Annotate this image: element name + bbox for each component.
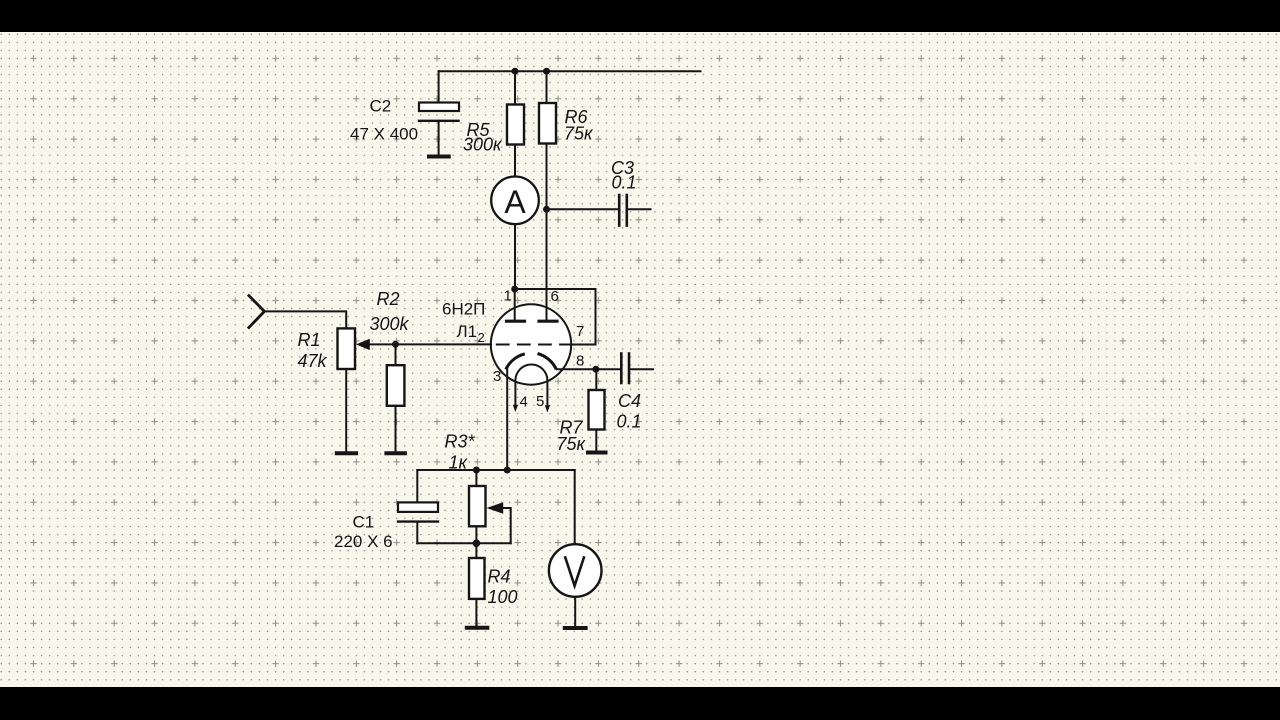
svg-text:6: 6 [551,288,559,305]
svg-text:5: 5 [536,393,544,410]
svg-text:220 X 6: 220 X 6 [334,532,393,551]
node: rail-R6 junction [543,68,550,75]
ground (R7) [588,451,606,455]
svg-text:C1: C1 [353,513,375,532]
wire: R6 to tube pin 6 anode lead [546,144,548,320]
ground (C2) [429,155,449,159]
wire: cathode pin 3 lead down [506,368,508,470]
tube heater leg pin 5 with arrow [545,381,550,413]
potentiometer R3 body [469,486,486,526]
wire: rail to R5 [514,71,516,104]
svg-text:75к: 75к [557,434,587,454]
wire: junction to R2 [395,344,397,365]
svg-text:8: 8 [576,353,584,370]
svg-text:100: 100 [488,587,518,607]
wire: C1 to bottom link [416,522,418,544]
svg-text:C2: C2 [370,97,392,116]
wire: C4 output stub [631,368,654,370]
wire: ammeter to tube pin 1 [514,224,516,289]
wire: R4 to ground [475,599,477,626]
resistor R2 [387,365,405,406]
node: rail-R5 junction [512,68,519,75]
svg-text:1к: 1к [449,453,469,473]
node: grid wire - R2 junction [392,341,399,348]
resistor R6 [539,103,556,144]
wire: cathode pin 8 to C4/R7 [557,368,620,370]
wire: pin1 to grid-2 feedback link [515,289,596,345]
svg-text:3: 3 [493,368,501,385]
svg-text:7: 7 [576,323,584,340]
svg-text:47 X 400: 47 X 400 [350,125,418,144]
wire: junction to R7 [595,369,597,390]
svg-text:300k: 300k [370,314,410,334]
svg-text:0.1: 0.1 [612,173,637,193]
capacitor C1 (polarized) [398,502,438,521]
node: cathode rail - R3 top [473,467,480,474]
tube heater arc [515,365,547,381]
svg-text:75к: 75к [564,124,594,144]
svg-text:1: 1 [504,288,512,305]
tube anode lead pin 1 [514,289,516,320]
tube anode bar (triode b) [539,320,557,323]
wire: wiper / grid wire to tube [370,343,492,345]
svg-text:Л1: Л1 [457,322,478,341]
wire: junction to C3 [547,208,618,210]
svg-text:6Н2П: 6Н2П [442,300,485,319]
potentiometer R3 wiper arrow [487,502,504,514]
wire: voltmeter to ground [574,597,576,626]
wire: link to R4 [475,543,477,558]
tube grid (dashed) [497,344,572,346]
tube anode bar (triode a) [507,320,525,323]
resistor R5 [507,105,524,145]
node: bottom link - R4 junction [473,540,481,548]
wire: R3 wiper to bottom link [503,508,511,543]
tube cathode arc (triode b) [538,354,557,370]
wire: R1 to ground [345,369,347,451]
svg-text:A: A [504,184,526,220]
voltmeter V [549,544,602,597]
resistor R4 [469,558,485,599]
wire: +B supply rail [439,70,701,72]
svg-text:R1: R1 [298,330,321,350]
node: anode line - C3 junction [543,206,550,213]
wire: rail to C2 [438,71,440,102]
svg-text:4: 4 [520,394,528,411]
ground (R4) [467,626,488,630]
input connector fork [249,296,265,328]
wire: cathode rail [417,469,574,471]
ground (V) [565,626,586,630]
ground (R2) [386,451,405,455]
wire: input to R1 top [264,311,346,328]
capacitor C3 [619,195,627,226]
svg-text:C4: C4 [618,391,641,411]
potentiometer R1 body [338,328,356,369]
svg-text:47k: 47k [298,351,328,371]
wire: rail to R3 [475,470,477,486]
resistor R7 [589,390,605,430]
wire: R2 to ground [395,406,397,452]
label tube designator Л1 [457,322,485,345]
tube U1 envelope (6Н2П) [491,304,571,384]
ground (R1) [337,451,356,455]
capacitor C2 (polarized) [419,103,459,121]
node: pin8 - R7 junction [592,366,599,373]
wire: C2 to ground [438,121,440,155]
wire: rail down to C1 [416,470,418,502]
node: cathode rail - pin3 [504,467,511,474]
tube heater leg pin 4 with arrow [513,381,518,413]
capacitor C4 [621,354,629,384]
svg-text:2: 2 [478,330,485,345]
wire: bottom link [417,542,510,544]
potentiometer R1 wiper arrow [356,339,370,350]
wire: rail to R6 [546,71,548,103]
wire: R3 bottom to link [475,526,477,543]
node: tube pin 1 [511,286,518,293]
svg-text:R2: R2 [377,289,400,309]
wire: R5 to ammeter [514,145,516,177]
svg-text:R4: R4 [488,567,511,587]
wire: R7 to ground [595,430,597,451]
svg-text:300к: 300к [463,135,503,155]
svg-text:R3*: R3* [445,432,476,452]
tube cathode arc (triode a) [506,354,525,369]
wire: cathode rail to voltmeter [574,470,576,544]
wire: C3 output stub [628,208,651,210]
ammeter A [491,177,539,225]
svg-text:0.1: 0.1 [617,412,642,432]
